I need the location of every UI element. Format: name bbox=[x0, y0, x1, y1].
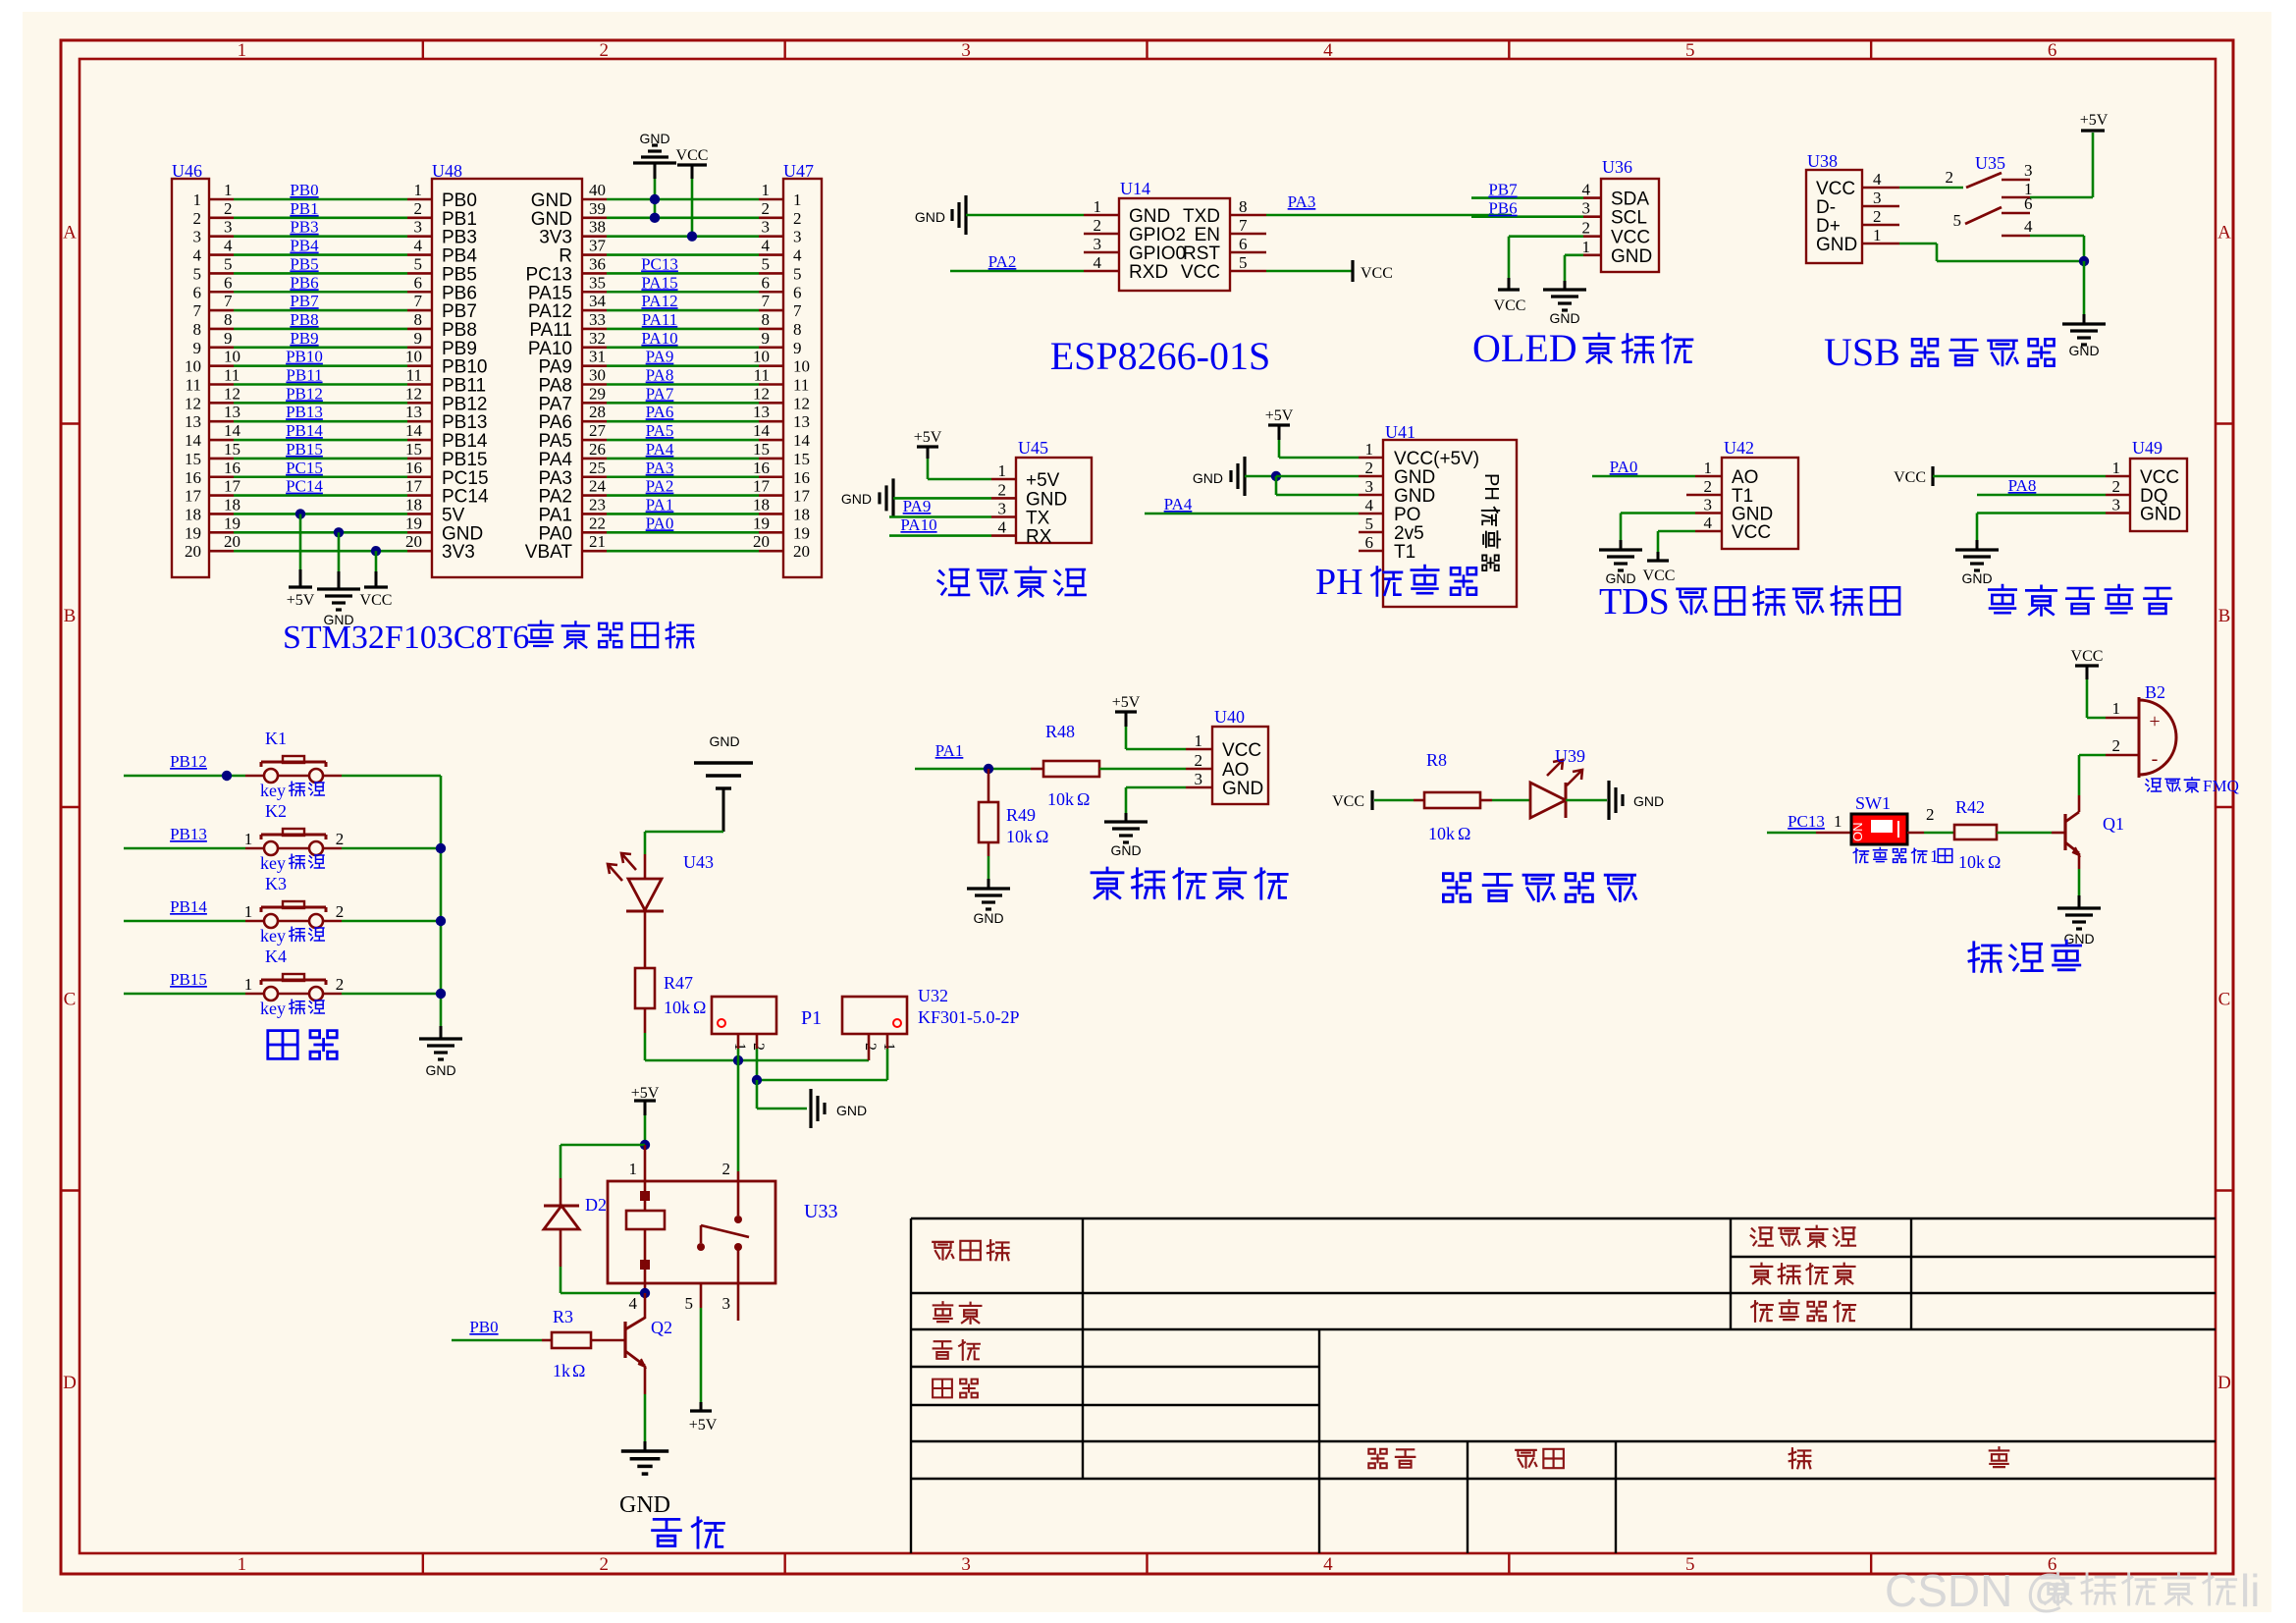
wire PB12 U46 pin12 to U48 pin12 bbox=[209, 402, 234, 405]
svg-text:15: 15 bbox=[753, 440, 770, 459]
svg-text:3: 3 bbox=[998, 500, 1007, 518]
svg-text:5: 5 bbox=[762, 254, 771, 273]
svg-text:VCC: VCC bbox=[676, 147, 709, 164]
svg-text:PA11: PA11 bbox=[529, 320, 572, 341]
svg-text:7: 7 bbox=[193, 301, 202, 320]
svg-text:PA15: PA15 bbox=[641, 273, 677, 292]
svg-text:PB5: PB5 bbox=[290, 254, 318, 273]
svg-text:4: 4 bbox=[762, 237, 771, 255]
svg-text:6: 6 bbox=[762, 273, 771, 292]
svg-text:19: 19 bbox=[405, 514, 422, 532]
svg-text:VBAT: VBAT bbox=[525, 542, 573, 563]
pushbutton K2 bbox=[264, 841, 278, 855]
power symbol +5V (U48 pin 5V row18) bbox=[295, 509, 305, 518]
svg-text:9: 9 bbox=[224, 329, 233, 348]
svg-text:PB8: PB8 bbox=[442, 320, 477, 341]
wire relay pin4 to Q2 collector bbox=[644, 1283, 647, 1293]
svg-text:PB13: PB13 bbox=[442, 412, 487, 433]
svg-text:10: 10 bbox=[185, 357, 201, 376]
watermark CSDN bbox=[1885, 1565, 2260, 1616]
connector P1 right bbox=[842, 997, 907, 1034]
svg-text:PA10: PA10 bbox=[528, 339, 572, 359]
svg-text:10: 10 bbox=[793, 357, 810, 376]
svg-text:PB14: PB14 bbox=[170, 897, 207, 916]
svg-text:U39: U39 bbox=[1555, 746, 1585, 766]
title block label 更新日期 bbox=[1751, 1226, 1855, 1247]
svg-text:3: 3 bbox=[414, 218, 423, 237]
svg-text:li: li bbox=[2240, 1565, 2260, 1616]
svg-text:16: 16 bbox=[224, 459, 240, 477]
wire PB14 U46 pin14 to U48 pin14 bbox=[209, 439, 234, 442]
svg-text:30: 30 bbox=[589, 366, 606, 385]
svg-text:PB12: PB12 bbox=[286, 384, 323, 403]
wire PB10 U46 pin10 to U48 pin10 bbox=[209, 364, 234, 367]
svg-text:1: 1 bbox=[793, 190, 802, 209]
wire PB8 U46 pin8 to U48 pin8 bbox=[209, 328, 234, 331]
svg-text:PB10: PB10 bbox=[442, 357, 487, 378]
svg-text:8: 8 bbox=[193, 320, 202, 339]
svg-text:1: 1 bbox=[244, 975, 253, 994]
svg-text:GND: GND bbox=[2068, 343, 2099, 358]
connector P1 left (U32 KF301) bbox=[712, 997, 776, 1034]
svg-text:PA9: PA9 bbox=[538, 357, 572, 378]
svg-text:U40: U40 bbox=[1214, 707, 1245, 727]
svg-text:U32: U32 bbox=[918, 986, 948, 1005]
resistor R8 10k bbox=[1424, 792, 1480, 808]
svg-text:18: 18 bbox=[793, 505, 810, 523]
svg-text:5: 5 bbox=[1239, 253, 1248, 272]
section title 电源指示灯 bbox=[1443, 874, 1635, 902]
svg-text:B2: B2 bbox=[2145, 682, 2165, 702]
svg-text:2: 2 bbox=[1582, 219, 1591, 238]
svg-text:PB8: PB8 bbox=[290, 310, 318, 329]
wire R8 to LED U39 bbox=[1480, 799, 1492, 802]
svg-text:PA5: PA5 bbox=[646, 421, 674, 440]
section title 驱动 bbox=[653, 1518, 724, 1547]
svg-text:1: 1 bbox=[1365, 440, 1374, 459]
svg-text:4: 4 bbox=[193, 246, 202, 265]
svg-text:2v5: 2v5 bbox=[1394, 523, 1424, 544]
svg-text:6: 6 bbox=[2048, 40, 2057, 61]
svg-text:5V: 5V bbox=[442, 505, 465, 525]
svg-text:PA15: PA15 bbox=[528, 283, 572, 303]
svg-text:D: D bbox=[2217, 1373, 2231, 1393]
svg-text:3: 3 bbox=[961, 40, 971, 61]
svg-text:16: 16 bbox=[793, 468, 810, 487]
svg-text:1: 1 bbox=[1094, 197, 1102, 216]
connector U38 USB bbox=[1806, 170, 1862, 263]
svg-text:GND: GND bbox=[442, 523, 483, 544]
svg-text:17: 17 bbox=[793, 487, 811, 506]
svg-text:3: 3 bbox=[1873, 189, 1882, 207]
svg-text:PA3: PA3 bbox=[1288, 192, 1316, 211]
svg-text:B: B bbox=[2218, 606, 2231, 626]
svg-text:FMQ: FMQ bbox=[2203, 777, 2239, 795]
svg-text:U33: U33 bbox=[804, 1201, 837, 1222]
svg-text:USB: USB bbox=[1824, 330, 1900, 374]
svg-text:PA2: PA2 bbox=[646, 477, 674, 496]
svg-text:18: 18 bbox=[405, 495, 422, 514]
wire U48 pin25 to U47 pin16 bbox=[582, 475, 607, 478]
svg-text:GND: GND bbox=[2140, 505, 2181, 525]
svg-text:R8: R8 bbox=[1426, 750, 1447, 770]
svg-text:+5V: +5V bbox=[689, 1417, 718, 1434]
svg-text:GND: GND bbox=[1193, 470, 1223, 486]
svg-text:3: 3 bbox=[722, 1294, 731, 1313]
svg-text:16: 16 bbox=[753, 459, 770, 477]
wire GND U46 pin19 to U48 pin19 bbox=[209, 531, 234, 534]
wire PC14 U46 pin17 to U48 pin17 bbox=[209, 494, 234, 497]
svg-text:U42: U42 bbox=[1724, 438, 1754, 458]
ground symbol GND at U39 bbox=[1566, 799, 1607, 802]
section title 蜂鸣器 bbox=[1969, 941, 2081, 971]
wire U14 pin8 TXD net PA3 bbox=[1230, 214, 1266, 217]
svg-text:6: 6 bbox=[1239, 235, 1248, 253]
U14 pin2 stub bbox=[1084, 233, 1119, 236]
svg-text:37: 37 bbox=[589, 237, 607, 255]
resistor R42 and wire to Q1 base bbox=[1954, 825, 1997, 839]
svg-text:ON: ON bbox=[1850, 823, 1865, 842]
svg-text:1: 1 bbox=[193, 190, 202, 209]
svg-text:U14: U14 bbox=[1120, 179, 1150, 198]
svg-text:12: 12 bbox=[793, 394, 810, 412]
wire U48 pin35 to U47 pin6 bbox=[582, 291, 607, 294]
svg-text:GND: GND bbox=[836, 1103, 867, 1118]
wire U48 pin34 to U47 pin7 bbox=[582, 309, 607, 312]
svg-text:D2: D2 bbox=[585, 1195, 607, 1215]
wire PB11 U46 pin11 to U48 pin11 bbox=[209, 383, 234, 386]
svg-text:PC15: PC15 bbox=[286, 459, 323, 477]
svg-text:8: 8 bbox=[793, 320, 802, 339]
relay U33 contacts pins 5,3 bbox=[697, 1243, 705, 1251]
svg-text:6: 6 bbox=[414, 273, 423, 292]
svg-text:2: 2 bbox=[1704, 477, 1713, 496]
svg-text:23: 23 bbox=[589, 495, 606, 514]
power symbol +5V at relay pin5 bbox=[700, 1283, 703, 1308]
IC U42 TDS sensor bbox=[1722, 458, 1798, 549]
svg-text:10k: 10k bbox=[1047, 789, 1074, 809]
power symbol VCC at U42 pin4 bbox=[1695, 530, 1722, 533]
svg-text:10k: 10k bbox=[664, 998, 690, 1017]
svg-text:A: A bbox=[2217, 222, 2231, 243]
section title 浊度传感器 bbox=[1092, 868, 1287, 898]
svg-text:4: 4 bbox=[1323, 40, 1333, 61]
title block label 创建日期 bbox=[1751, 1264, 1855, 1284]
svg-text:PB7: PB7 bbox=[1488, 181, 1518, 199]
svg-text:3V3: 3V3 bbox=[539, 228, 572, 248]
svg-text:Ω: Ω bbox=[1458, 824, 1470, 843]
svg-text:36: 36 bbox=[589, 254, 606, 273]
svg-text:AO: AO bbox=[1732, 467, 1758, 488]
svg-text:5: 5 bbox=[1365, 514, 1374, 533]
svg-text:R42: R42 bbox=[1955, 797, 1985, 817]
svg-text:PB11: PB11 bbox=[442, 376, 486, 397]
wire U48 pin33 to U47 pin8 bbox=[582, 328, 607, 331]
svg-text:PB6: PB6 bbox=[1488, 199, 1517, 218]
pushbutton K1 bbox=[264, 769, 278, 783]
svg-text:PB0: PB0 bbox=[290, 181, 318, 199]
DIP switch SW1 bbox=[1851, 814, 1907, 844]
svg-text:GND: GND bbox=[619, 1492, 670, 1518]
wire U48 pin36 to U47 pin5 bbox=[582, 272, 607, 275]
svg-text:GND: GND bbox=[2063, 931, 2094, 947]
svg-text:SCL: SCL bbox=[1611, 208, 1647, 229]
svg-text:39: 39 bbox=[589, 199, 606, 218]
svg-text:D+: D+ bbox=[1816, 216, 1841, 237]
svg-text:9: 9 bbox=[193, 339, 202, 357]
svg-text:3: 3 bbox=[193, 228, 202, 246]
svg-text:27: 27 bbox=[589, 421, 607, 440]
svg-text:PA0: PA0 bbox=[646, 514, 674, 532]
svg-text:1: 1 bbox=[1195, 731, 1203, 750]
svg-text:PB13: PB13 bbox=[286, 403, 323, 421]
svg-text:GND: GND bbox=[425, 1062, 455, 1078]
svg-text:PB5: PB5 bbox=[442, 264, 477, 285]
svg-text:3: 3 bbox=[2112, 496, 2121, 514]
U38 D- stub pin3 bbox=[1862, 205, 1899, 208]
svg-text:4: 4 bbox=[1094, 253, 1102, 272]
svg-text:PA8: PA8 bbox=[538, 376, 572, 397]
svg-text:2: 2 bbox=[1365, 459, 1374, 477]
svg-text:22: 22 bbox=[589, 514, 606, 532]
ground symbol GND at U40 pin3 bbox=[1186, 786, 1212, 789]
svg-text:17: 17 bbox=[224, 477, 241, 496]
IC U14 ESP8266-01S bbox=[1119, 198, 1230, 291]
svg-text:key: key bbox=[260, 926, 286, 946]
svg-text:PA4: PA4 bbox=[646, 440, 674, 459]
svg-text:GPIO0: GPIO0 bbox=[1129, 243, 1186, 264]
svg-text:7: 7 bbox=[414, 292, 423, 310]
svg-text:GND: GND bbox=[915, 209, 945, 225]
relay pin3 stub bbox=[737, 1283, 740, 1321]
svg-text:2: 2 bbox=[998, 480, 1007, 499]
ground symbol GND at U36 pin1 bbox=[1583, 253, 1601, 256]
svg-text:PB6: PB6 bbox=[290, 273, 318, 292]
svg-text:R49: R49 bbox=[1006, 805, 1036, 825]
svg-text:key: key bbox=[260, 999, 286, 1018]
ground symbol GND (U48 GND row19) bbox=[334, 527, 344, 537]
svg-text:PC14: PC14 bbox=[442, 487, 489, 508]
svg-text:PA11: PA11 bbox=[642, 310, 678, 329]
IC U41 PH sensor bbox=[1383, 440, 1517, 607]
wire U48 pin22 to U47 pin19 bbox=[582, 531, 607, 534]
title block label 原理图 bbox=[933, 1240, 1008, 1260]
svg-text:PA5: PA5 bbox=[538, 431, 572, 452]
svg-text:C: C bbox=[64, 989, 77, 1009]
relay U33 coil pins 1,4 bbox=[644, 1145, 647, 1181]
svg-text:8: 8 bbox=[224, 310, 233, 329]
svg-text:2: 2 bbox=[762, 199, 771, 218]
connector U47 bbox=[783, 179, 822, 577]
svg-text:PA9: PA9 bbox=[646, 348, 674, 366]
svg-text:RXD: RXD bbox=[1129, 262, 1168, 283]
svg-text:3: 3 bbox=[224, 218, 233, 237]
svg-text:PH: PH bbox=[1315, 562, 1363, 603]
svg-text:GND: GND bbox=[841, 491, 872, 507]
svg-text:1: 1 bbox=[1704, 459, 1713, 477]
svg-text:GND: GND bbox=[973, 910, 1003, 926]
svg-text:Q2: Q2 bbox=[651, 1318, 672, 1337]
svg-text:VCC: VCC bbox=[1181, 262, 1220, 283]
svg-text:U38: U38 bbox=[1807, 151, 1838, 171]
section title 测试接口 bbox=[938, 568, 1086, 597]
svg-text:PA1: PA1 bbox=[935, 741, 964, 760]
svg-text:PA6: PA6 bbox=[646, 403, 674, 421]
svg-text:2: 2 bbox=[193, 209, 202, 228]
title block label 审阅 bbox=[933, 1380, 978, 1398]
svg-text:2: 2 bbox=[336, 975, 345, 994]
svg-text:PA3: PA3 bbox=[646, 459, 674, 477]
svg-text:2: 2 bbox=[414, 199, 423, 218]
svg-text:2: 2 bbox=[1873, 207, 1882, 226]
svg-text:PB6: PB6 bbox=[442, 283, 477, 303]
svg-text:10: 10 bbox=[405, 348, 422, 366]
svg-text:PA2: PA2 bbox=[988, 252, 1017, 271]
svg-text:14: 14 bbox=[224, 421, 241, 440]
svg-text:PO: PO bbox=[1394, 505, 1420, 525]
svg-text:1: 1 bbox=[238, 40, 247, 61]
svg-text:20: 20 bbox=[753, 532, 770, 551]
svg-text:PB13: PB13 bbox=[170, 825, 207, 843]
title block label 页 bbox=[1789, 1448, 1811, 1468]
svg-text:PB12: PB12 bbox=[442, 394, 487, 414]
svg-text:9: 9 bbox=[762, 329, 771, 348]
svg-text:PB9: PB9 bbox=[290, 329, 318, 348]
wire net PB6 to U36 SCL bbox=[1471, 215, 1583, 218]
svg-text:1: 1 bbox=[629, 1160, 638, 1178]
wire P1 lower node bbox=[757, 1079, 887, 1082]
svg-text:Ω: Ω bbox=[693, 998, 706, 1017]
svg-text:8: 8 bbox=[414, 310, 423, 329]
svg-text:4: 4 bbox=[1704, 514, 1713, 532]
svg-text:Ω: Ω bbox=[1988, 852, 2001, 872]
wire GND to U43 anode bbox=[645, 831, 723, 834]
svg-text:20: 20 bbox=[405, 532, 422, 551]
svg-text:PB12: PB12 bbox=[170, 752, 207, 771]
svg-text:RX: RX bbox=[1026, 527, 1052, 548]
svg-text:28: 28 bbox=[589, 403, 606, 421]
svg-text:U46: U46 bbox=[172, 161, 202, 181]
svg-text:VCC: VCC bbox=[1494, 298, 1526, 314]
svg-text:1: 1 bbox=[762, 181, 771, 199]
svg-text:4: 4 bbox=[998, 518, 1007, 537]
svg-text:GND: GND bbox=[1222, 779, 1263, 799]
svg-text:U49: U49 bbox=[2132, 438, 2163, 458]
U38 D+ stub pin2 bbox=[1862, 224, 1899, 227]
svg-text:PB4: PB4 bbox=[290, 237, 319, 255]
svg-text:16: 16 bbox=[185, 468, 201, 487]
wire U48 pin31 to U47 pin10 bbox=[582, 364, 607, 367]
svg-text:SW1: SW1 bbox=[1855, 793, 1891, 813]
wire U38 VCC to switch U35 pin2 bbox=[1862, 187, 1899, 189]
ground symbol GND at Q2 emitter bbox=[644, 1366, 647, 1394]
svg-text:10: 10 bbox=[224, 348, 240, 366]
svg-text:GPIO2: GPIO2 bbox=[1129, 225, 1186, 245]
svg-text:TXD: TXD bbox=[1183, 206, 1220, 227]
svg-text:GND: GND bbox=[1394, 467, 1435, 488]
svg-text:+5V: +5V bbox=[1112, 694, 1141, 711]
svg-text:4: 4 bbox=[2024, 217, 2033, 236]
svg-text:GND: GND bbox=[531, 190, 572, 211]
svg-text:TDS: TDS bbox=[1599, 581, 1670, 622]
pushbutton K3 bbox=[264, 914, 278, 928]
svg-text:4: 4 bbox=[414, 237, 423, 255]
svg-text:2: 2 bbox=[336, 830, 345, 848]
wire U48 pin39 to U47 pin2 bbox=[582, 217, 607, 220]
wire R47 to P1 node bbox=[644, 1008, 647, 1033]
svg-text:Ω: Ω bbox=[1077, 789, 1090, 809]
wire K3 pin2 to key bus bbox=[323, 920, 342, 923]
svg-text:11: 11 bbox=[793, 376, 809, 395]
wire +5V node to diode D2 bbox=[561, 1144, 645, 1147]
wire U43 cathode to R47 bbox=[644, 911, 647, 968]
svg-text:4: 4 bbox=[224, 237, 233, 255]
svg-text:1: 1 bbox=[244, 902, 253, 921]
svg-text:key: key bbox=[260, 781, 286, 800]
svg-text:PB1: PB1 bbox=[442, 209, 477, 230]
svg-text:7: 7 bbox=[224, 292, 233, 310]
svg-text:26: 26 bbox=[589, 440, 606, 459]
svg-text:29: 29 bbox=[589, 384, 606, 403]
svg-text:R: R bbox=[559, 246, 572, 267]
svg-text:VCC(+5V): VCC(+5V) bbox=[1394, 449, 1479, 469]
svg-text:4: 4 bbox=[793, 246, 802, 265]
wire U38 GND to ground node bbox=[1862, 243, 1899, 245]
svg-text:1: 1 bbox=[2112, 699, 2121, 718]
wire 5V U46 pin18 to U48 pin18 bbox=[209, 513, 234, 515]
transistor Q2 bbox=[623, 1322, 626, 1358]
svg-text:11: 11 bbox=[406, 366, 422, 385]
svg-text:34: 34 bbox=[589, 292, 607, 310]
svg-text:5: 5 bbox=[793, 264, 802, 283]
U14 pin7 stub bbox=[1230, 233, 1266, 236]
wire U48 pin38 to U47 pin3 bbox=[582, 235, 607, 238]
section title 按键 bbox=[268, 1031, 337, 1059]
svg-text:15: 15 bbox=[405, 440, 422, 459]
svg-text:2: 2 bbox=[750, 1043, 767, 1051]
svg-text:21: 21 bbox=[589, 532, 606, 551]
svg-text:VCC: VCC bbox=[1816, 179, 1855, 199]
pushbutton K4 bbox=[264, 987, 278, 1001]
svg-text:12: 12 bbox=[405, 384, 422, 403]
svg-text:PB15: PB15 bbox=[442, 450, 487, 470]
svg-text:5: 5 bbox=[1953, 211, 1962, 230]
key bus vertical wire bbox=[440, 776, 443, 1026]
relay U33 body bbox=[608, 1181, 775, 1283]
svg-text:TX: TX bbox=[1026, 509, 1050, 529]
wire K4 pin2 to key bus bbox=[323, 993, 342, 996]
wire U48 pin24 to U47 pin17 bbox=[582, 494, 607, 497]
svg-text:U35: U35 bbox=[1975, 153, 2005, 173]
svg-text:D-: D- bbox=[1816, 197, 1836, 218]
svg-text:GND: GND bbox=[1633, 793, 1664, 809]
svg-text:8: 8 bbox=[1239, 197, 1248, 216]
svg-text:10k: 10k bbox=[1006, 827, 1033, 846]
svg-text:GND: GND bbox=[1611, 246, 1652, 267]
svg-text:PB15: PB15 bbox=[170, 970, 207, 989]
title block grid bbox=[911, 1217, 2216, 1219]
svg-text:32: 32 bbox=[589, 329, 606, 348]
svg-text:U41: U41 bbox=[1385, 422, 1415, 442]
svg-text:VCC: VCC bbox=[2140, 467, 2179, 488]
svg-text:4: 4 bbox=[629, 1294, 638, 1313]
svg-text:18: 18 bbox=[224, 495, 240, 514]
svg-text:PC13: PC13 bbox=[1788, 812, 1825, 831]
ground symbol GND at P1 bbox=[756, 1080, 759, 1109]
svg-text:13: 13 bbox=[185, 412, 201, 431]
IC U49 temperature sensor bbox=[2130, 459, 2187, 531]
svg-text:18: 18 bbox=[753, 495, 770, 514]
